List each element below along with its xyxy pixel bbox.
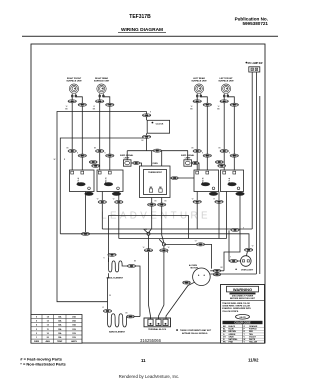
svg-text:BK: BK xyxy=(93,109,96,111)
svg-text:OVEN: OVEN xyxy=(152,163,158,165)
svg-text:W: W xyxy=(218,106,220,108)
connector below switch LF xyxy=(236,192,245,195)
surface unit RIGHT FRONT xyxy=(66,78,82,93)
svg-text:BK: BK xyxy=(94,148,97,150)
oven lamp xyxy=(235,256,254,272)
wire LR switch drop 1 xyxy=(196,192,198,230)
svg-text:BK: BK xyxy=(164,201,167,203)
connector broil top xyxy=(108,253,116,256)
svg-text:COLOR CODE: COLOR CODE xyxy=(234,322,251,325)
svg-text:BK: BK xyxy=(191,148,194,150)
svg-text:W: W xyxy=(191,106,193,108)
connector LEFT REAR right disconnect xyxy=(203,154,211,157)
svg-text:EXAMPLE: GREEN WIRE WITH: EXAMPLE: GREEN WIRE WITH xyxy=(222,307,251,310)
oven lamp switch OV LAMP SW xyxy=(245,61,263,73)
svg-text:2: 2 xyxy=(36,333,37,335)
connector on H5 xyxy=(196,243,204,246)
surface unit RIGHT REAR xyxy=(94,77,110,93)
connector motor 2 xyxy=(213,273,221,276)
svg-text:BK: BK xyxy=(65,109,68,111)
svg-text:12: 12 xyxy=(47,325,49,327)
header rule xyxy=(22,35,278,37)
connector LEFT REAR left plug xyxy=(193,100,201,103)
svg-text:BAKE ELEMENT: BAKE ELEMENT xyxy=(109,330,126,333)
wire RIGHT REAR right lead xyxy=(103,93,110,170)
connector LEFT FRONT left plug xyxy=(220,100,228,103)
wire lamp left lead xyxy=(229,230,241,261)
wire thermostat to LR switch xyxy=(170,177,194,179)
wire motor terminal 2 to right side xyxy=(210,273,256,275)
svg-text:THERMOSTAT: THERMOSTAT xyxy=(148,171,162,174)
surface switch RR xyxy=(97,170,123,192)
wire bus H2 to oven lamp xyxy=(60,234,249,248)
svg-text:BROIL ELEMENT: BROIL ELEMENT xyxy=(107,278,124,280)
wire LR switch drop 2 xyxy=(218,192,220,239)
svg-text:W: W xyxy=(113,199,115,201)
svg-text:TAN: TAN xyxy=(249,333,253,336)
connector RIGHT FRONT right disconnect xyxy=(78,154,86,157)
wire lamp switch down right side xyxy=(255,72,257,274)
terminal block xyxy=(144,318,171,331)
connector LEFT REAR left disconnect xyxy=(193,149,201,152)
connector motor left xyxy=(183,281,191,284)
connector block lead 2 xyxy=(160,249,168,252)
wire bake right xyxy=(127,316,141,318)
svg-text:W: W xyxy=(213,199,215,201)
svg-text:GN-YE: GN-YE xyxy=(239,317,246,319)
svg-text:W: W xyxy=(168,247,170,249)
svg-text:W: W xyxy=(102,307,104,309)
surface switch LR xyxy=(194,170,219,192)
surface switch RF xyxy=(70,170,95,192)
wire bus L1 left drop to bake element xyxy=(57,112,147,302)
surface signal light left xyxy=(120,154,134,166)
connector clock top xyxy=(142,114,150,117)
svg-text:AMPS: AMPS xyxy=(71,340,77,343)
wire broil bottom to bake element xyxy=(108,273,109,316)
connector thermostat right xyxy=(171,177,178,180)
svg-text:Rendered by LeadVenture, Inc.: Rendered by LeadVenture, Inc. xyxy=(119,374,180,379)
wire oven control feed line xyxy=(127,150,188,152)
svg-text:BK: BK xyxy=(141,140,144,142)
wire lamp top lead xyxy=(247,248,250,256)
svg-text:BK: BK xyxy=(218,148,221,150)
connector motor 1 xyxy=(213,269,221,272)
wire bus H1 xyxy=(102,228,252,230)
svg-text:BK: BK xyxy=(134,261,137,263)
connector inside switch LF xyxy=(228,183,237,186)
wire thermostat out 2 to junction xyxy=(162,198,164,243)
svg-text:316255066: 316255066 xyxy=(140,338,162,343)
connector pair left lower xyxy=(92,164,100,167)
svg-text:5: 5 xyxy=(36,321,37,323)
svg-text:OVEN LIGHT: OVEN LIGHT xyxy=(241,270,254,272)
connector block lead 1 xyxy=(144,249,152,252)
svg-text:TEF317B: TEF317B xyxy=(129,14,151,20)
svg-text:6: 6 xyxy=(36,317,37,319)
clock box xyxy=(147,120,169,133)
connector below switch RF xyxy=(85,192,94,195)
surface unit LEFT FRONT xyxy=(218,78,234,93)
svg-text:YELLOW STRIPE.: YELLOW STRIPE. xyxy=(222,311,239,313)
surface signal light right xyxy=(181,154,195,166)
svg-text:11: 11 xyxy=(141,358,146,363)
connector LEFT REAR right plug xyxy=(203,103,211,106)
svg-text:R: R xyxy=(229,153,231,155)
terminal pins of LEFT FRONT unit xyxy=(223,95,228,97)
connector inside switch LR xyxy=(201,183,210,186)
connector thermostat out 1 xyxy=(148,203,156,206)
svg-text:11/02: 11/02 xyxy=(248,357,259,362)
wire to left signal light xyxy=(126,151,128,160)
connector LEFT FRONT right disconnect xyxy=(230,154,238,157)
svg-text:BK: BK xyxy=(154,201,157,203)
svg-text:BR: BR xyxy=(220,267,223,269)
svg-text:BEFORE SERVICING UNIT: BEFORE SERVICING UNIT xyxy=(230,298,256,300)
parts list table xyxy=(31,315,82,344)
svg-text:SURFACE UNIT: SURFACE UNIT xyxy=(218,79,234,82)
svg-text:20: 20 xyxy=(47,337,49,339)
wire RF switch to bus xyxy=(85,192,87,234)
svg-text:W: W xyxy=(109,295,111,297)
svg-text:R: R xyxy=(150,112,152,114)
svg-text:W: W xyxy=(192,199,194,201)
svg-text:WIRING DIAGRAM: WIRING DIAGRAM xyxy=(121,27,163,33)
svg-text:W: W xyxy=(143,247,145,249)
connector RIGHT REAR right disconnect xyxy=(106,154,114,157)
svg-text:W: W xyxy=(93,106,95,108)
connector LEFT FRONT right plug xyxy=(230,103,238,106)
wire junction A to terminal block 1 xyxy=(149,235,151,319)
svg-text:CLOCK: CLOCK xyxy=(156,123,164,125)
svg-text:ORANGE: ORANGE xyxy=(249,325,258,328)
svg-text:✱: ✱ xyxy=(235,268,237,271)
wire RR switch drop 2 xyxy=(118,192,120,239)
svg-text:BK: BK xyxy=(190,109,193,111)
wire to right signal light xyxy=(187,151,189,160)
terminal pins of LEFT REAR unit xyxy=(196,95,201,97)
svg-text:W: W xyxy=(66,106,68,108)
connector RIGHT FRONT left plug xyxy=(68,100,76,103)
connector RIGHT FRONT left disconnect xyxy=(68,149,76,152)
wire junction B to terminal block 2 xyxy=(159,246,164,320)
svg-text:✱: ✱ xyxy=(176,329,178,332)
svg-text:R: R xyxy=(64,159,66,161)
connector inside switch RF xyxy=(77,183,86,186)
surface switch LF xyxy=(221,170,244,192)
svg-text:TRACER WIRE: WIRE COLOR: TRACER WIRE: WIRE COLOR xyxy=(222,302,250,305)
diagram border frame xyxy=(31,44,265,343)
wire broil feed line xyxy=(109,216,189,239)
wire LEFT FRONT left lead xyxy=(223,93,225,170)
svg-text:1: 1 xyxy=(36,337,37,339)
oven motor xyxy=(189,264,210,285)
wire RIGHT FRONT right lead xyxy=(76,93,83,170)
connector RIGHT REAR left plug xyxy=(96,100,104,103)
connector lamp top xyxy=(244,248,252,251)
junction node A xyxy=(147,232,150,235)
svg-text:BK: BK xyxy=(125,313,128,315)
connector broil-bake xyxy=(103,309,111,312)
connector right signal light xyxy=(192,162,198,165)
connector below switch LR xyxy=(209,192,218,195)
connector RR drop 1 xyxy=(98,200,106,203)
wire into clock xyxy=(146,112,148,121)
wire thermostat out 1 to junction xyxy=(149,198,152,233)
wire bus N left drop xyxy=(60,138,146,234)
wire right side run xyxy=(259,96,261,274)
connector LR drop 2 xyxy=(215,200,223,203)
svg-text:* = Non-Illustrated Parts: * = Non-Illustrated Parts xyxy=(20,362,66,367)
svg-text:AWG: AWG xyxy=(45,340,50,343)
wire diagonal into junction B xyxy=(159,239,163,243)
svg-text:OV LAMP SW: OV LAMP SW xyxy=(248,62,264,65)
svg-text:BK: BK xyxy=(217,109,220,111)
connector on bus at RF drop xyxy=(81,232,89,235)
connector broil right xyxy=(127,264,135,267)
broil element xyxy=(107,258,126,280)
connector bake right xyxy=(127,315,135,318)
svg-text:W: W xyxy=(54,159,56,161)
svg-text:GY: GY xyxy=(195,241,198,243)
svg-text:MOTOR: MOTOR xyxy=(191,268,199,270)
svg-text:SURFACE UNIT: SURFACE UNIT xyxy=(66,79,82,82)
connector LEFT FRONT left disconnect xyxy=(220,149,228,152)
svg-text:5995380721: 5995380721 xyxy=(242,21,268,26)
wire broil element top feed xyxy=(108,216,110,263)
svg-text:10: 10 xyxy=(47,333,49,335)
connector pair right lower xyxy=(218,164,226,167)
wire LEFT FRONT right lead xyxy=(228,93,235,170)
svg-text:Y: Y xyxy=(230,257,232,259)
svg-text:TEMP: TEMP xyxy=(57,341,63,343)
svg-text:11: 11 xyxy=(47,329,49,331)
wire diagonal into junction A xyxy=(144,229,148,233)
wire motor to terminal block 3 xyxy=(166,282,195,319)
svg-text:APPEAR ON ALL MODELS.: APPEAR ON ALL MODELS. xyxy=(182,332,208,335)
svg-text:R: R xyxy=(77,153,79,155)
connector left signal light xyxy=(133,162,140,165)
wire RIGHT REAR left lead xyxy=(99,93,101,170)
warning box xyxy=(221,285,265,344)
svg-text:BLACK: BLACK xyxy=(229,325,236,328)
terminal pins of RIGHT FRONT unit xyxy=(71,95,76,97)
svg-text:R: R xyxy=(103,258,105,260)
connector inside switch RR xyxy=(104,183,113,186)
svg-text:TERMINAL BLOCK: TERMINAL BLOCK xyxy=(148,328,167,331)
svg-text:✱: ✱ xyxy=(151,121,153,124)
oven thermostat xyxy=(140,163,171,198)
svg-text:SURFACE UNIT: SURFACE UNIT xyxy=(94,79,110,82)
connector thermostat out 2 xyxy=(158,203,166,206)
svg-text:W: W xyxy=(97,199,99,201)
svg-text:R: R xyxy=(104,153,106,155)
svg-text:W: W xyxy=(252,246,254,248)
svg-text:BK: BK xyxy=(66,148,69,150)
wire LF switch drop 2 to motor xyxy=(224,192,240,271)
wire right signal light to switch xyxy=(192,163,200,170)
connector pair left upper xyxy=(89,161,97,164)
svg-text:SURFACE UNIT: SURFACE UNIT xyxy=(191,79,207,82)
connector RIGHT REAR right plug xyxy=(106,103,114,106)
connector RIGHT FRONT right plug xyxy=(78,103,86,106)
svg-text:WIRE: WIRE xyxy=(34,341,40,343)
surface unit LEFT REAR xyxy=(191,77,207,93)
wire LF switch drop 1 xyxy=(226,192,228,239)
bake element xyxy=(108,314,127,334)
wire LEFT REAR right lead xyxy=(201,93,208,170)
junction node B xyxy=(162,243,165,246)
wire RR switch drop 1 xyxy=(101,192,103,230)
connector LR drop 1 xyxy=(193,200,201,203)
connector on control feed xyxy=(153,149,161,152)
wire lamp switch to bus H1 xyxy=(251,72,253,229)
svg-text:THESE COMPONENTS MAY NOT: THESE COMPONENTS MAY NOT xyxy=(180,329,212,332)
wire thermostat feed 1 xyxy=(151,151,153,166)
connector clock bottom xyxy=(142,135,150,138)
svg-text:12: 12 xyxy=(47,321,49,323)
connector pair right upper xyxy=(215,161,223,164)
wire RIGHT FRONT left lead xyxy=(71,93,73,170)
connector RR drop 2 xyxy=(115,200,123,203)
svg-text:WARNING: WARNING xyxy=(233,287,252,292)
svg-text:R: R xyxy=(202,153,204,155)
wire broil right to bake node xyxy=(125,266,140,317)
wire left signal light to thermostat xyxy=(131,163,142,166)
wire bus H5 to motor top xyxy=(164,244,212,268)
wire thermostat feed 2 xyxy=(161,151,163,166)
wire LEFT REAR left lead xyxy=(196,93,198,170)
wire motor terminal 1 xyxy=(210,270,224,272)
wire bus H4 xyxy=(119,238,227,240)
connector lamp left xyxy=(229,259,237,262)
connector on bus H1 xyxy=(231,228,239,231)
svg-text:R: R xyxy=(167,252,169,254)
wire clock bottom lead xyxy=(146,133,148,151)
connector RIGHT REAR left disconnect xyxy=(96,149,104,152)
svg-text:3: 3 xyxy=(36,329,37,331)
connector below switch RR xyxy=(112,192,121,195)
terminal pins of RIGHT REAR unit xyxy=(99,95,104,97)
